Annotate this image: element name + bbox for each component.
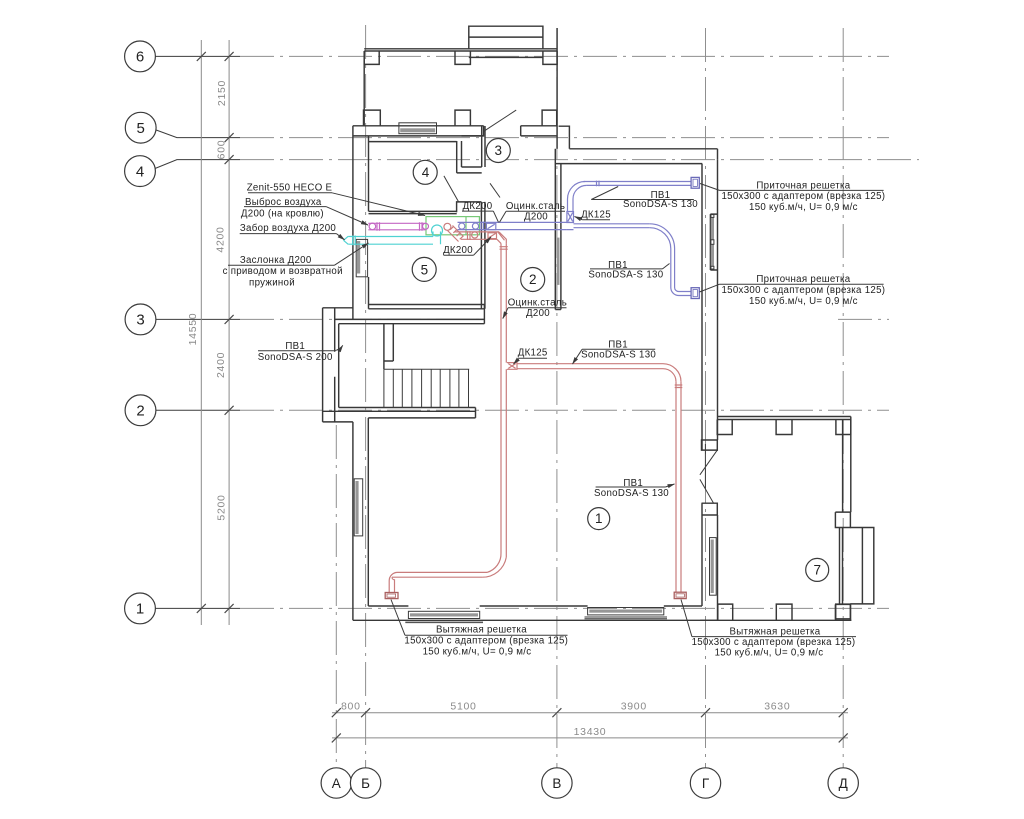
axis bubble G <box>690 768 720 798</box>
svg-text:Б: Б <box>361 776 370 791</box>
svg-text:14550: 14550 <box>187 313 199 346</box>
window room1 west <box>354 479 363 536</box>
stair bay top cap <box>323 307 353 309</box>
room1 east wall lower <box>702 503 718 620</box>
room1 west wall inner <box>367 418 369 606</box>
axis line A vertical <box>335 425 337 768</box>
svg-text:Г: Г <box>702 776 710 791</box>
AXES <box>155 25 919 768</box>
axis bubble 4 <box>125 156 156 187</box>
svg-text:Zenit-550 HECO E: Zenit-550 HECO E <box>247 183 333 194</box>
axis bubble 6 <box>125 41 156 72</box>
red elbow to vertical <box>497 232 506 244</box>
red 45deg duct <box>448 226 464 242</box>
top block north wall pier 3 <box>543 51 557 64</box>
red fan circle <box>444 223 451 230</box>
V axis partition wall <box>555 149 561 310</box>
blue supply duct main <box>458 222 567 229</box>
pier up 1 <box>364 110 381 126</box>
room 7 north wall <box>717 417 851 420</box>
svg-text:150х300 с адаптером (врезка 12: 150х300 с адаптером (врезка 125) <box>404 636 568 647</box>
top block east wall <box>556 28 558 149</box>
top block north wall pier 1 <box>364 51 379 64</box>
south band segment right of door <box>521 126 557 136</box>
door swing room3 east <box>490 183 500 197</box>
svg-text:ДК200: ДК200 <box>443 245 473 256</box>
pier up 2 <box>455 110 470 126</box>
red vertical duct east <box>676 382 681 593</box>
cyan intake arrow <box>344 236 349 244</box>
room7 south wall <box>700 619 851 621</box>
room7 porch <box>850 528 873 604</box>
room4 south wall inner line <box>369 141 457 143</box>
stair wall stub <box>384 324 393 370</box>
room1 west wall outer <box>352 422 354 620</box>
red elbow down to grille <box>389 572 397 593</box>
room7 east wall upper <box>843 417 851 513</box>
svg-text:5: 5 <box>137 120 145 137</box>
room 5 north wall <box>369 211 457 213</box>
svg-text:5: 5 <box>421 262 429 277</box>
svg-text:3630: 3630 <box>764 701 790 713</box>
room bubble 7 <box>806 558 829 581</box>
room 5 south wall band <box>369 305 485 324</box>
axis bubble 3 <box>125 304 156 335</box>
north wall rooms 2 east (inner face) <box>556 163 702 165</box>
red riser duct left vertical <box>501 243 506 557</box>
svg-text:6: 6 <box>136 49 144 66</box>
svg-text:4: 4 <box>136 163 144 180</box>
WINDOWS <box>354 123 716 623</box>
magenta flanges <box>377 222 422 231</box>
ticks left inner <box>225 52 234 613</box>
svg-text:Оцинк.сталь: Оцинк.сталь <box>506 201 565 212</box>
red elbow east <box>663 364 681 382</box>
svg-text:4: 4 <box>422 165 430 180</box>
east wall pier below door <box>702 503 718 515</box>
room7 east pier mid <box>835 512 850 527</box>
stair hall west wall inner <box>338 324 340 408</box>
svg-text:2150: 2150 <box>216 80 228 106</box>
blue tee DK125 box <box>567 212 574 223</box>
blue flanges <box>481 222 484 231</box>
svg-text:5200: 5200 <box>216 494 228 520</box>
magenta riser circle right <box>423 223 429 229</box>
axis bubble V <box>542 768 572 798</box>
room bubble 4 <box>413 160 437 184</box>
top block west wall <box>363 51 365 126</box>
blue flange rings <box>459 223 465 229</box>
svg-text:150х300 с адаптером (врезка 12: 150х300 с адаптером (врезка 125) <box>721 191 885 202</box>
left dim line inner <box>228 40 230 625</box>
room7 east window lines <box>840 528 843 605</box>
ticks bottom lower <box>332 733 848 742</box>
shaft west stub upper <box>457 141 462 173</box>
bottom dim line upper <box>332 712 848 714</box>
top block north wall <box>364 49 557 51</box>
room7 north pier 1 <box>717 420 732 435</box>
svg-text:SonoDSA-S 130: SonoDSA-S 130 <box>594 488 669 499</box>
axis line 3 <box>155 318 240 320</box>
room7 south pier 2 <box>776 604 792 620</box>
blue supply grille lower <box>691 288 699 299</box>
red horizontal duct <box>455 232 499 239</box>
svg-text:150 куб.м/ч, U= 0,9 м/с: 150 куб.м/ч, U= 0,9 м/с <box>715 648 824 659</box>
svg-text:В: В <box>552 776 561 791</box>
cyan elbow into unit <box>433 232 441 245</box>
axis bubble 5 <box>125 112 156 143</box>
svg-text:4200: 4200 <box>215 226 227 252</box>
room bubble 3 <box>486 139 510 163</box>
room7 north pier 3 <box>836 420 851 435</box>
svg-text:Забор воздуха Д200: Забор воздуха Д200 <box>240 223 337 234</box>
svg-text:ДК125: ДК125 <box>518 348 548 359</box>
axis line B(Б) vertical <box>365 25 367 768</box>
svg-text:Д: Д <box>839 776 848 791</box>
corridor west wall upper <box>482 126 485 167</box>
red S-bend bottom left <box>482 553 506 577</box>
axis line V(В) vertical <box>556 28 558 768</box>
WALLS <box>323 26 874 620</box>
svg-text:Приточная решетка: Приточная решетка <box>756 180 850 191</box>
axis bubble D <box>828 768 858 798</box>
axis line 2 <box>155 409 240 411</box>
svg-text:Заслонка Д200: Заслонка Д200 <box>240 255 312 266</box>
east wall top corner <box>717 149 719 160</box>
room1 south wall inner <box>368 605 702 607</box>
axis line G(Г) vertical <box>705 28 707 768</box>
magenta riser circle left <box>369 223 376 230</box>
svg-text:13430: 13430 <box>574 726 607 738</box>
Zenit-550 unit (green) <box>426 217 479 235</box>
svg-text:2: 2 <box>136 403 144 420</box>
ticks left outer <box>197 52 206 613</box>
svg-text:800: 800 <box>341 701 361 713</box>
svg-text:SonoDSA-S 130: SonoDSA-S 130 <box>588 270 663 281</box>
stair bay outer wall <box>322 308 324 422</box>
svg-text:Вытяжная решетка: Вытяжная решетка <box>730 626 821 637</box>
svg-text:1: 1 <box>595 511 603 526</box>
room7 east pier bottom <box>835 604 850 619</box>
svg-text:ПВ1: ПВ1 <box>285 341 305 352</box>
blue flanges upper run <box>597 181 600 187</box>
door swing corridor <box>484 110 517 131</box>
room bubble 5 <box>412 257 436 281</box>
svg-text:600: 600 <box>216 140 228 160</box>
axis bubble 1 <box>125 593 156 624</box>
svg-text:1: 1 <box>136 601 144 618</box>
svg-text:ДК125: ДК125 <box>581 210 611 221</box>
window room1 south B <box>588 608 664 615</box>
red damper box <box>488 233 497 239</box>
BUBBLES <box>125 41 859 798</box>
left dim line outer <box>200 40 202 625</box>
svg-text:Оцинк.сталь: Оцинк.сталь <box>508 298 567 309</box>
room1 south wall outer <box>353 619 718 621</box>
svg-text:Д200: Д200 <box>526 308 550 319</box>
STAIRS <box>384 324 469 408</box>
shaft east wall <box>481 202 485 309</box>
room7 south pier 1 <box>718 604 733 620</box>
window room1 south A <box>408 611 479 618</box>
shaft band horizontal <box>457 167 482 173</box>
terrace outline top <box>469 26 543 57</box>
stair treads <box>384 369 469 408</box>
west block west wall inner <box>368 136 370 211</box>
stair hall south wall band <box>323 408 476 418</box>
svg-text:2: 2 <box>529 272 537 287</box>
cyan fan circle <box>432 225 443 236</box>
blue damper box <box>486 223 495 229</box>
cyan intake duct <box>348 237 433 245</box>
east window room2 frame <box>710 214 717 270</box>
bottom dim line lower <box>332 737 848 739</box>
top block north wall pier 2 <box>455 51 470 64</box>
red exhaust grille right <box>674 592 686 598</box>
svg-text:А: А <box>332 776 341 791</box>
red flanges on riser <box>500 247 508 250</box>
room bubble 2 <box>521 268 545 292</box>
ticks bottom upper <box>332 708 848 717</box>
DIMS <box>187 40 848 742</box>
step at V axis <box>559 126 570 149</box>
blue S-bend down <box>650 224 675 288</box>
svg-text:150х300 с адаптером (врезка 12: 150х300 с адаптером (врезка 125) <box>721 285 885 296</box>
svg-text:3: 3 <box>136 312 144 329</box>
axis bubble B <box>350 768 380 798</box>
blue lower run after tee <box>574 224 650 228</box>
cyan flange at wall <box>353 236 356 246</box>
shaft niche walls <box>457 202 482 212</box>
blue upper run <box>584 182 692 186</box>
svg-text:SonoDSA-S 130: SonoDSA-S 130 <box>623 199 698 210</box>
room7 north pier 2 <box>776 420 792 435</box>
axis line 4 <box>155 160 240 169</box>
south wall of top block (band) west part <box>353 126 484 136</box>
svg-text:SonoDSA-S 130: SonoDSA-S 130 <box>581 350 656 361</box>
stair bay bottom cap <box>323 421 353 423</box>
svg-text:с приводом и возвратной: с приводом и возвратной <box>223 266 343 277</box>
red horizontal duct to east <box>517 364 663 369</box>
svg-text:150 куб.м/ч, U= 0,9 м/с: 150 куб.м/ч, U= 0,9 м/с <box>749 296 858 307</box>
room5 west wall inner lower <box>368 277 370 309</box>
svg-text:7: 7 <box>813 563 821 578</box>
window room5 west <box>356 239 367 276</box>
axis bubble 2 <box>125 395 156 426</box>
axis line 6 <box>155 55 240 57</box>
axis line D(Д) vertical <box>842 28 844 768</box>
door room1-room7 <box>700 444 717 503</box>
axis line 5 <box>155 130 240 138</box>
pier up 3 <box>542 110 557 126</box>
room bubble 1 <box>588 508 610 530</box>
svg-text:150 куб.м/ч, U= 0,9 м/с: 150 куб.м/ч, U= 0,9 м/с <box>749 202 858 213</box>
svg-text:пружиной: пружиной <box>249 277 295 288</box>
magenta exhaust duct <box>368 223 426 230</box>
north wall rooms 2 east (outer face) <box>569 148 717 150</box>
DUCTS <box>344 177 700 598</box>
blue branch up <box>568 199 574 212</box>
svg-text:150 куб.м/ч, U= 0,9 м/с: 150 куб.м/ч, U= 0,9 м/с <box>423 647 532 658</box>
window east room2 glazing <box>711 217 714 239</box>
red tee DK125 box <box>507 363 517 370</box>
svg-text:Д200: Д200 <box>524 212 548 223</box>
svg-text:5100: 5100 <box>450 701 476 713</box>
blue elbow to grille <box>671 288 692 296</box>
west block west wall outer <box>352 126 354 320</box>
svg-text:150х300 с адаптером (врезка 12: 150х300 с адаптером (врезка 125) <box>692 637 856 648</box>
room1/2 east wall upper <box>702 160 718 451</box>
window room1 east <box>710 538 717 596</box>
svg-text:Приточная решетка: Приточная решетка <box>756 274 850 285</box>
red exhaust grille left <box>385 593 398 599</box>
stair bay inner face segments <box>334 308 336 422</box>
axis bubble A <box>321 768 351 798</box>
svg-text:3900: 3900 <box>621 701 647 713</box>
svg-text:Д200 (на кровлю): Д200 (на кровлю) <box>241 208 324 219</box>
blue supply grille upper <box>691 177 699 188</box>
svg-text:3: 3 <box>495 143 503 158</box>
stair hall north wall band <box>335 319 485 323</box>
room7 south pier 3 <box>836 604 851 620</box>
red flanges east riser <box>675 385 683 388</box>
east wall pier above door <box>702 440 718 450</box>
red flanges <box>468 231 471 240</box>
blue elbow up-right <box>568 182 587 200</box>
svg-text:Вытяжная решетка: Вытяжная решетка <box>436 624 527 635</box>
svg-text:ДК200: ДК200 <box>463 201 493 212</box>
axis line 1 <box>155 607 240 609</box>
south band right part with door jamb <box>462 126 484 136</box>
blue duct across wall <box>567 222 574 229</box>
window top block south <box>399 123 437 134</box>
red horizontal duct bottom <box>392 572 487 577</box>
partition glazing <box>557 238 560 285</box>
svg-text:SonoDSA-S 200: SonoDSA-S 200 <box>258 352 333 363</box>
red duct circle <box>472 232 478 238</box>
shaft door swing <box>444 176 459 203</box>
svg-text:2400: 2400 <box>215 352 227 378</box>
